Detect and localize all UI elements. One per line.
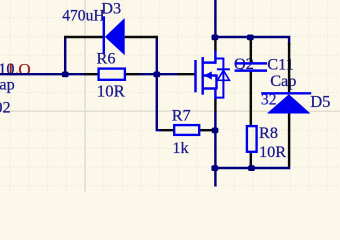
wire: down to D5 cathode — [288, 43, 290, 92]
transistor Q2 body-diode bar — [217, 68, 230, 70]
svg-text:10R: 10R — [259, 142, 286, 161]
diode D5 triangle — [267, 94, 311, 113]
diode D3 cathode bar — [103, 16, 105, 54]
capacitor C11 plates — [235, 62, 267, 64]
wire: riser x=157 down to R7 row — [157, 36, 163, 130]
transistor Q2 source stub — [202, 87, 218, 89]
pin: R7 right — [200, 129, 215, 131]
wire: R6 right to junction — [140, 73, 180, 75]
pin: Q2 drain lead upper — [214, 38, 216, 51]
resistor R8 body — [247, 126, 257, 152]
svg-text:1k: 1k — [172, 138, 189, 157]
transistor Q2 body-diode loop — [215, 59, 223, 98]
pin: R6 left — [85, 73, 99, 75]
transistor Q2 middle-to-source link — [215, 74, 217, 88]
resistor R7 body — [174, 125, 199, 135]
pin: D3 cathode wire — [125, 36, 158, 38]
svg-text:LO: LO — [8, 60, 31, 79]
wire: source column below MOSFET — [214, 112, 216, 187]
transistor Q2 arrow — [204, 71, 212, 79]
transistor Q2 drain stub — [202, 61, 217, 63]
pin: R6 right — [125, 73, 140, 75]
pin: C11 top lead — [250, 39, 252, 63]
wire: main horizontal net LO — [0, 73, 85, 75]
svg-text:D5: D5 — [310, 92, 330, 111]
junction dots — [62, 72, 69, 78]
svg-text:D3: D3 — [101, 0, 121, 18]
wire: C11 bottom to R8 — [250, 72, 252, 127]
wire: drain riser x=215 from top edge — [214, 0, 216, 38]
transistor Q2 gate bar — [194, 60, 196, 92]
wire: top-right horizontal with corner down at x=289 — [215, 37, 289, 45]
transistor Q2 middle stub — [202, 74, 217, 76]
svg-text:R8: R8 — [259, 123, 278, 142]
pin: Q2 gate lead — [178, 73, 195, 75]
svg-text:102: 102 — [0, 98, 11, 117]
pin: Q2 source lead lower — [214, 99, 216, 113]
transistor Q2 drain pin — [214, 51, 216, 64]
svg-text:R7: R7 — [172, 105, 191, 124]
diode D5 cathode bar — [261, 92, 311, 94]
pin: D5 anode lead down — [288, 113, 290, 166]
svg-text:R6: R6 — [97, 49, 116, 68]
svg-text:Cap: Cap — [270, 71, 296, 90]
diode D3 triangle — [105, 18, 125, 55]
transistor Q2 body-diode triangle — [217, 70, 229, 80]
transistor Q2 source pin — [214, 87, 216, 99]
pin: R7 left — [162, 129, 175, 131]
pin: R8 bottom lead — [250, 152, 252, 167]
transistor Q2 channel bar — [201, 57, 203, 95]
wire: left riser x=65 — [64, 36, 66, 75]
wire: bottom horizontal — [214, 167, 290, 169]
pin: D3 anode wire — [64, 36, 103, 38]
svg-text:10R: 10R — [97, 81, 126, 100]
svg-text:470uH: 470uH — [62, 8, 104, 25]
resistor R6 body — [99, 69, 125, 80]
